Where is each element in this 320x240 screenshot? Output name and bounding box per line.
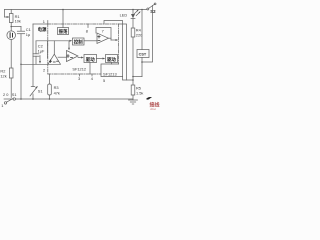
wire control to comparator [84, 40, 97, 42]
switch S2 top right [147, 8, 149, 10]
svg-text:SF1213: SF1213 [103, 71, 117, 76]
resistor R2 [9, 68, 13, 78]
pin 8 stub [87, 24, 89, 28]
wire driver1 to driver2 arrow [97, 58, 103, 60]
switch S1 pushbutton [31, 86, 35, 88]
capacitor C1 [20, 27, 22, 32]
wire pin7 jumper over top [104, 21, 123, 77]
svg-text:2: 2 [43, 68, 45, 73]
wire bottom connector to LED chain [123, 77, 134, 81]
wire amp2 to driver1 arrow [78, 57, 81, 59]
control box [73, 38, 85, 45]
resistor R1 [9, 14, 13, 23]
svg-text:1μ: 1μ [26, 32, 30, 37]
svg-text:4: 4 [91, 76, 94, 81]
wire driver1 to bottom edge [89, 63, 91, 75]
svg-text:12k: 12k [0, 74, 6, 79]
svg-text:SF1212: SF1212 [72, 67, 86, 72]
driver box 2 [106, 55, 118, 63]
buzzer CST box [141, 9, 143, 11]
svg-text:8: 8 [86, 28, 88, 33]
svg-text:驱动: 驱动 [86, 56, 95, 63]
svg-text:1: 1 [43, 19, 45, 24]
svg-text:CST: CST [139, 53, 147, 57]
comparator U1 [97, 33, 109, 44]
wire amp1 to amp2 [58, 56, 67, 58]
svg-text:1μF: 1μF [38, 49, 45, 54]
sub box SF1213 [101, 64, 123, 77]
wire bottom rail [16, 98, 134, 100]
resistor R4 [131, 28, 135, 37]
capacitor C2 [35, 56, 37, 64]
LED D1 [132, 9, 134, 11]
microphone B [7, 31, 16, 40]
wire input line C1 to amp [21, 63, 48, 65]
svg-text:2 0: 2 0 [3, 92, 9, 97]
svg-text:10k: 10k [15, 19, 21, 24]
svg-text:1.5k: 1.5k [136, 91, 143, 96]
svg-text:dzsc: dzsc [150, 107, 157, 110]
resistor R5 [131, 85, 135, 95]
wire C2 line into control box [36, 40, 70, 42]
svg-text:7: 7 [102, 28, 104, 33]
wire left drop to pot wiper [4, 10, 6, 18]
driver box 1 [84, 55, 97, 63]
node mic/R1/C1 junction [10, 26, 12, 28]
svg-text:47k: 47k [54, 91, 60, 96]
svg-text:电源: 电源 [38, 26, 47, 33]
wire mic down to R2 [10, 40, 12, 69]
wire top edge extension right [119, 24, 127, 80]
resistor R3 [49, 74, 51, 84]
svg-text:S2: S2 [150, 9, 156, 14]
pot wiper arrow into R1 [5, 16, 9, 18]
wire top supply rail [5, 9, 148, 11]
watermark logo [146, 97, 152, 100]
svg-text:振荡: 振荡 [59, 28, 68, 35]
wire comparator feedback loop [96, 28, 111, 41]
IC dashed box SF1212 [48, 24, 119, 74]
wire C1 node down to bottom rail [20, 64, 22, 66]
svg-text:S1: S1 [12, 92, 17, 97]
op-amp A1 input stage [48, 54, 61, 64]
wire rail drop to oscillator [62, 10, 64, 28]
wire branch down to amp1 input [47, 41, 49, 58]
LED emission arrows [134, 10, 138, 13]
wire driver2 to sub box [111, 63, 113, 65]
svg-text:1: 1 [1, 103, 3, 108]
pin 4 [91, 74, 93, 76]
svg-text:控制: 控制 [74, 39, 83, 46]
svg-text:S1: S1 [38, 89, 43, 94]
oscillator box [58, 28, 69, 35]
ground [129, 99, 138, 101]
svg-text:驱动: 驱动 [107, 56, 116, 63]
svg-text:5: 5 [103, 78, 105, 83]
wire S1 pushbutton riser [32, 24, 34, 87]
pin 3 [79, 74, 81, 76]
svg-text:R3: R3 [54, 85, 59, 90]
wire branch down to amp2 [68, 41, 70, 48]
svg-text:3: 3 [78, 76, 80, 81]
wire comparator output arrow to edge [109, 37, 112, 39]
svg-text:LED: LED [120, 13, 128, 18]
op-amp A2 [67, 51, 79, 62]
arrow signal marker [39, 56, 41, 62]
